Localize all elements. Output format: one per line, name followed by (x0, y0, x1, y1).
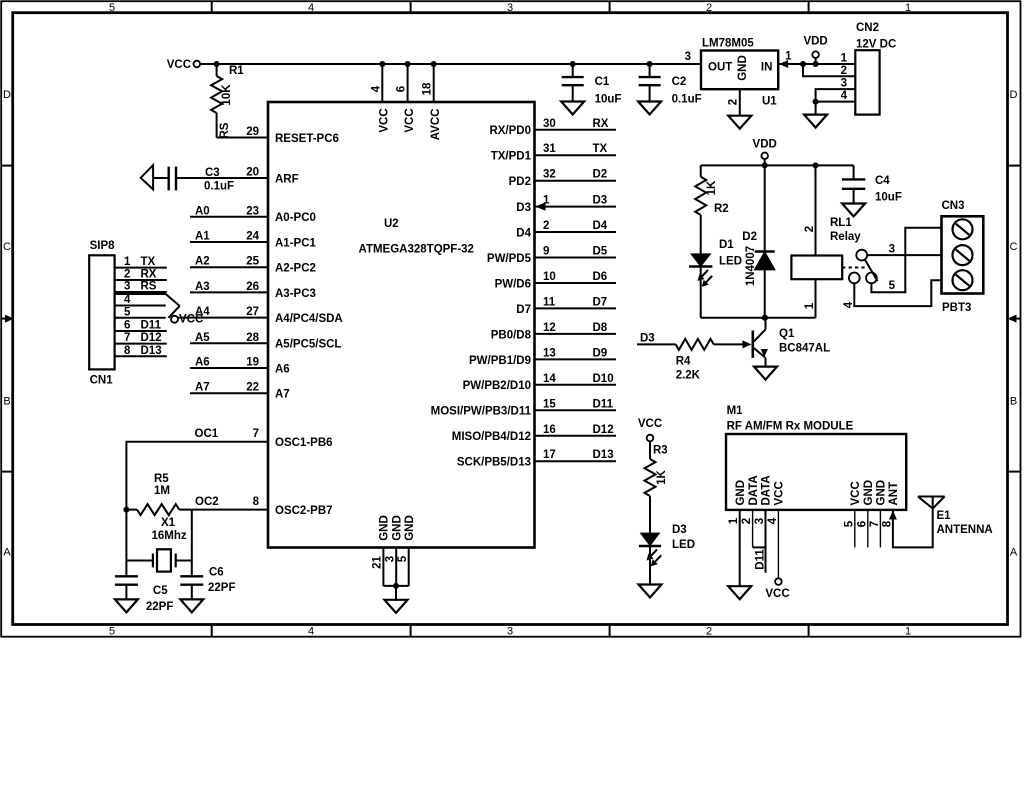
svg-text:D9: D9 (593, 347, 608, 359)
svg-text:10: 10 (543, 271, 556, 283)
ground symbol below U1 (728, 116, 751, 129)
svg-text:CN1: CN1 (90, 375, 114, 387)
ground symbol below C4 (842, 204, 865, 217)
svg-text:MISO/PB4/D12: MISO/PB4/D12 (452, 431, 531, 443)
svg-text:3: 3 (384, 556, 396, 562)
svg-text:5: 5 (889, 280, 896, 292)
regulator U1 GND pin 2 wire (728, 89, 740, 116)
svg-text:VCC: VCC (179, 314, 203, 326)
bottom border zone tick marks (211, 625, 213, 637)
svg-text:24: 24 (246, 231, 259, 243)
svg-text:A0-PC0: A0-PC0 (275, 212, 316, 224)
ground symbol below C6 (180, 599, 203, 612)
svg-text:6: 6 (396, 86, 408, 92)
power terminal VDD (relay section) (753, 139, 777, 166)
svg-text:TX: TX (141, 256, 156, 268)
svg-text:1: 1 (905, 626, 911, 638)
svg-text:15: 15 (543, 398, 556, 410)
wire M1 pin 7 stub (879, 510, 881, 548)
resistor R3 1K (645, 441, 669, 533)
svg-text:MOSI/PW/PB3/D11: MOSI/PW/PB3/D11 (431, 406, 532, 418)
svg-text:31: 31 (543, 143, 556, 155)
svg-text:VCC: VCC (638, 418, 662, 430)
svg-text:1: 1 (905, 2, 911, 14)
svg-text:29: 29 (246, 126, 259, 138)
junction dot relay branch (813, 162, 819, 168)
svg-text:C4: C4 (875, 175, 890, 187)
capacitor C6 22PF (180, 567, 235, 600)
ground symbol below CN2 (804, 115, 827, 128)
svg-text:RS: RS (141, 281, 157, 293)
svg-text:12: 12 (543, 322, 556, 334)
resistor R4 2.2K (676, 339, 744, 382)
capacitor C4 10uF (842, 165, 902, 203)
connector CN2 12V DC body (855, 50, 879, 114)
svg-text:D11: D11 (755, 549, 767, 570)
svg-text:RL1: RL1 (830, 217, 852, 229)
wire CN1 pin 8 net D13 (115, 355, 167, 357)
svg-text:OSC2-PB7: OSC2-PB7 (275, 505, 333, 517)
wire net D3 to R4 (637, 343, 676, 345)
svg-text:R2: R2 (714, 203, 729, 215)
svg-text:7: 7 (869, 521, 881, 527)
wire reset to U2 pin 29 (217, 137, 268, 139)
svg-text:D: D (3, 89, 11, 101)
svg-text:Q1: Q1 (779, 328, 795, 340)
svg-text:RX/PD0: RX/PD0 (489, 125, 531, 137)
connector CN2 labels (856, 22, 896, 51)
svg-text:1K: 1K (656, 469, 668, 484)
transistor Q1 BC847AL (753, 318, 830, 367)
wire CN2 pin 2 branch (803, 64, 855, 76)
svg-text:D11: D11 (593, 398, 614, 410)
svg-text:5: 5 (844, 520, 856, 527)
svg-text:A5/PC5/SCL: A5/PC5/SCL (275, 339, 341, 351)
svg-text:4: 4 (843, 301, 855, 308)
junction dot at R1 top (214, 61, 220, 67)
svg-text:A1-PC1: A1-PC1 (275, 237, 317, 249)
wire net A7 to U2 pin 22 (190, 392, 268, 394)
junction dot CN2 pin2 branch (800, 61, 806, 67)
wire M1 pin 6 stub (867, 510, 869, 548)
left border zone tick marks (1, 165, 13, 167)
power terminal VCC at CN1 arrow (171, 314, 203, 326)
svg-text:SIP8: SIP8 (90, 240, 116, 252)
svg-text:OC2: OC2 (195, 496, 219, 508)
svg-text:2: 2 (706, 2, 712, 14)
capacitor C3 0.1uF on ARF pin 20 (141, 165, 268, 192)
led D3 labels (672, 524, 695, 551)
svg-text:R3: R3 (653, 445, 668, 457)
power terminal VCC (M1 pin 4) (765, 578, 789, 600)
left edge centering arrow (1, 318, 8, 320)
svg-text:5: 5 (109, 2, 115, 14)
svg-text:U1: U1 (762, 96, 777, 108)
wire U2 pin 1 net D3 (535, 206, 617, 208)
wire CN1 pin 6 net D11 (115, 330, 167, 332)
svg-text:A1: A1 (195, 231, 210, 243)
wire U2 pin 31 net TX (535, 154, 617, 156)
svg-text:21: 21 (372, 556, 384, 569)
svg-text:OUT: OUT (708, 62, 732, 74)
right edge centering arrow (1014, 318, 1021, 320)
connector CN3 screw terminals (953, 219, 973, 290)
svg-text:3: 3 (124, 281, 130, 293)
svg-text:3: 3 (507, 2, 513, 14)
wire U2 top pin 4 to VCC rail (379, 61, 385, 102)
pin numbers M1 5-8 (844, 520, 894, 527)
svg-text:D2: D2 (593, 169, 608, 181)
svg-text:RS: RS (219, 122, 231, 138)
svg-text:C5: C5 (153, 585, 168, 597)
ic U2 ATMEGA328TQPF-32 body (268, 102, 535, 548)
svg-text:LED: LED (672, 539, 695, 551)
wire net A3 to U2 pin 26 (190, 291, 268, 293)
svg-text:5: 5 (109, 626, 115, 638)
svg-text:2: 2 (741, 518, 753, 524)
wire U2 pin 17 net D13 (535, 460, 617, 462)
wire U2 pin 9 net D5 (535, 257, 617, 259)
input arrowhead on U2 pin 1 D3 (536, 202, 546, 210)
resistor R2 1K (695, 165, 729, 254)
svg-text:GND: GND (863, 480, 875, 506)
svg-text:DATA: DATA (748, 475, 760, 505)
svg-text:2: 2 (706, 626, 712, 638)
wire U2 pin 16 net D12 (535, 435, 617, 437)
svg-text:VDD: VDD (753, 139, 777, 151)
svg-text:RF AM/FM Rx MODULE: RF AM/FM Rx MODULE (727, 421, 854, 433)
svg-text:27: 27 (246, 306, 259, 318)
svg-text:TX: TX (593, 143, 608, 155)
svg-text:18: 18 (422, 82, 434, 95)
svg-text:CN3: CN3 (942, 200, 965, 212)
svg-text:Relay: Relay (830, 231, 861, 243)
svg-text:ARF: ARF (275, 173, 299, 185)
svg-text:1: 1 (841, 53, 848, 65)
svg-text:D3: D3 (640, 333, 655, 345)
wire M1 pin 4 to VCC terminal (777, 510, 779, 578)
wire U2 top pin 6 to VCC rail (405, 61, 411, 102)
pin numbers M1 1-4 (728, 517, 779, 524)
svg-text:E1: E1 (937, 510, 952, 522)
svg-text:4: 4 (767, 517, 779, 524)
wire U2 top pin 18 to VCC rail (431, 61, 437, 102)
module M1 body (726, 434, 906, 510)
wire net A4 to U2 pin 27 (178, 317, 269, 319)
svg-text:D3: D3 (516, 202, 531, 214)
svg-text:ANT: ANT (888, 482, 900, 506)
wire VCC rail to regulator OUT (200, 63, 701, 65)
svg-text:25: 25 (246, 256, 259, 268)
svg-text:D12: D12 (593, 424, 614, 436)
svg-text:VCC: VCC (850, 481, 862, 505)
wire U2 pin 7 OC1 (126, 442, 268, 510)
wire M1 pin 1 to ground (739, 510, 741, 586)
svg-text:A7: A7 (275, 389, 290, 401)
ground symbol below C5 (115, 599, 138, 612)
ic U2 left pin names (275, 133, 343, 517)
svg-text:32: 32 (543, 169, 556, 181)
svg-text:A: A (1010, 547, 1018, 559)
sheet inner border frame (13, 13, 1008, 625)
svg-text:16: 16 (543, 424, 556, 436)
svg-text:16Mhz: 16Mhz (152, 530, 187, 542)
wire M1 pins 2 3 net D11 (753, 510, 766, 573)
ground symbol below C1 (561, 102, 584, 115)
wire CN1 pin 1 net TX (115, 267, 167, 269)
wire U1 IN to CN2 pin 1 (778, 63, 855, 65)
wire net A6 to U2 pin 19 (190, 367, 268, 369)
wire U2 pin 15 net D11 (535, 409, 617, 411)
wire net A1 to U2 pin 24 (190, 241, 268, 243)
svg-text:14: 14 (543, 373, 556, 385)
svg-text:D: D (1010, 89, 1018, 101)
svg-text:19: 19 (246, 357, 259, 369)
svg-text:A2: A2 (195, 256, 210, 268)
svg-text:A: A (3, 547, 11, 559)
svg-text:0.1uF: 0.1uF (672, 94, 702, 106)
svg-text:2: 2 (124, 269, 130, 281)
junction dot GND pins (393, 583, 399, 589)
wire U2 pin 2 net D4 (535, 231, 617, 233)
input arrowhead on U1 IN pin (779, 60, 788, 68)
svg-text:B: B (3, 396, 10, 408)
svg-text:GND: GND (392, 515, 404, 541)
svg-text:R4: R4 (676, 356, 691, 368)
svg-text:D4: D4 (593, 220, 608, 232)
svg-text:10uF: 10uF (595, 94, 622, 106)
relay RL1 switch contacts (849, 250, 878, 284)
svg-text:PBT3: PBT3 (942, 302, 971, 314)
svg-text:1M: 1M (154, 485, 170, 497)
junction dot bottom rail (762, 315, 768, 321)
capacitor C5 22PF (115, 576, 173, 613)
svg-text:1: 1 (804, 302, 816, 309)
svg-text:1: 1 (124, 256, 131, 268)
bus arrow CN1 pins 4 5 to VCC (115, 294, 180, 318)
svg-text:D8: D8 (593, 322, 608, 334)
svg-text:D5: D5 (593, 246, 608, 258)
wire U2 pin 32 net D2 (535, 180, 617, 182)
capacitor C2 0.1uF (639, 61, 702, 106)
svg-text:AVCC: AVCC (430, 109, 442, 141)
pin numbers CN2 1 2 3 4 (841, 53, 848, 103)
svg-text:ANTENNA: ANTENNA (937, 524, 993, 536)
wire relay NO to CN3 top (net 5) (871, 228, 941, 292)
svg-text:VCC: VCC (765, 588, 789, 600)
svg-text:4: 4 (124, 294, 131, 306)
svg-text:R5: R5 (154, 473, 169, 485)
svg-text:10K: 10K (221, 84, 233, 106)
svg-text:C: C (1010, 241, 1018, 253)
top border zone tick marks (211, 1, 213, 13)
wire CN2 pins 3 4 to ground (816, 89, 856, 115)
svg-text:1: 1 (728, 517, 740, 524)
svg-text:20: 20 (246, 167, 259, 179)
ground symbol below D3 (639, 585, 662, 598)
svg-text:3: 3 (754, 518, 766, 524)
wire M1 pin 5 stub (854, 510, 856, 548)
svg-text:C: C (3, 241, 11, 253)
svg-text:6: 6 (857, 521, 869, 527)
led D1 labels (719, 239, 742, 267)
svg-text:4: 4 (308, 2, 314, 14)
svg-text:TX/PD1: TX/PD1 (491, 151, 532, 163)
ground symbol below C2 (638, 102, 661, 115)
svg-text:GND: GND (735, 480, 747, 506)
module M1 labels (727, 405, 854, 433)
junction dot OC1/R5 (123, 507, 129, 513)
svg-text:12V DC: 12V DC (856, 39, 896, 51)
connector CN3 labels (942, 200, 972, 314)
svg-text:D7: D7 (516, 304, 531, 316)
wire CN1 pin 3 net RS (115, 291, 167, 293)
regulator U1 labels (702, 38, 777, 108)
svg-text:2: 2 (728, 99, 740, 105)
svg-text:PW/D6: PW/D6 (495, 278, 531, 290)
regulator U1 LM78M05 body (701, 51, 778, 90)
svg-text:2: 2 (841, 65, 847, 77)
resistor R5 1M (126, 473, 191, 515)
svg-text:VCC: VCC (404, 108, 416, 132)
wire U2 pin 11 net D7 (535, 307, 617, 309)
ic U2 bottom pin names GND GND GND (379, 515, 417, 541)
svg-text:D3: D3 (672, 524, 687, 536)
svg-text:4: 4 (841, 90, 848, 102)
svg-text:D12: D12 (141, 332, 162, 344)
wire net A2 to U2 pin 25 (190, 266, 268, 268)
svg-text:OSC1-PB6: OSC1-PB6 (275, 437, 333, 449)
diode D2 1N4007 (742, 165, 774, 317)
svg-text:8: 8 (124, 345, 131, 357)
wire U2 pin 10 net D6 (535, 282, 617, 284)
svg-text:2.2K: 2.2K (676, 370, 701, 382)
svg-text:3: 3 (889, 244, 895, 256)
connector CN1 SIP8 body (89, 255, 114, 369)
right border zone tick marks (1008, 165, 1021, 167)
wire U2 pin 30 net RX (535, 129, 617, 131)
wire VDD rail relay section (701, 164, 854, 166)
wire net A5 to U2 pin 28 (190, 342, 268, 344)
ground symbol below M1 pin 1 (728, 586, 751, 599)
svg-text:1N4007: 1N4007 (745, 246, 757, 286)
svg-text:A7: A7 (195, 382, 210, 394)
svg-text:GND: GND (737, 55, 749, 81)
svg-text:CN2: CN2 (856, 22, 879, 34)
svg-text:28: 28 (246, 332, 259, 344)
svg-text:PW/PD5: PW/PD5 (487, 253, 532, 265)
relay RL1 coil (791, 165, 861, 317)
wire relay common to CN3 pin 3 (867, 254, 941, 256)
led D1 emission arrows (699, 270, 708, 280)
svg-text:2: 2 (804, 226, 816, 232)
svg-text:RX: RX (593, 118, 609, 130)
svg-text:7: 7 (253, 428, 259, 440)
led D1 (689, 254, 712, 317)
svg-text:D6: D6 (593, 271, 608, 283)
svg-text:BC847AL: BC847AL (779, 343, 830, 355)
svg-text:B: B (1010, 396, 1017, 408)
svg-text:A0: A0 (195, 205, 210, 217)
svg-text:23: 23 (246, 205, 259, 217)
antenna E1 (918, 497, 993, 537)
arrowhead into Q1 base (743, 340, 752, 348)
svg-text:C1: C1 (595, 76, 610, 88)
led D3 (639, 534, 661, 585)
svg-text:M1: M1 (727, 405, 744, 417)
svg-text:OC1: OC1 (195, 428, 219, 440)
svg-text:3: 3 (507, 626, 513, 638)
capacitor C1 10uF (562, 61, 622, 106)
svg-text:VCC: VCC (379, 108, 391, 132)
connector CN1 labels (90, 240, 116, 387)
svg-text:X1: X1 (161, 517, 176, 529)
svg-text:22PF: 22PF (208, 582, 236, 594)
svg-text:C2: C2 (672, 76, 687, 88)
led D3 emission arrows (648, 550, 657, 560)
svg-text:PW/PB2/D10: PW/PB2/D10 (463, 380, 531, 392)
wires U2 bottom GND pins 21 3 5 (383, 548, 408, 600)
svg-text:5: 5 (124, 306, 131, 318)
svg-text:D7: D7 (593, 296, 608, 308)
svg-text:A6: A6 (195, 357, 210, 369)
svg-text:RESET-PC6: RESET-PC6 (275, 133, 339, 145)
svg-text:GND: GND (379, 515, 391, 541)
svg-text:5: 5 (397, 555, 409, 562)
svg-text:2: 2 (543, 220, 549, 232)
pin numbers 21 3 5 (372, 555, 409, 569)
power terminal VDD (top) (803, 36, 827, 65)
svg-text:1K: 1K (706, 180, 718, 195)
power terminal VCC (R3) (638, 418, 662, 441)
svg-text:D4: D4 (516, 227, 531, 239)
svg-text:6: 6 (124, 320, 130, 332)
svg-text:SCK/PB5/D13: SCK/PB5/D13 (457, 457, 531, 469)
svg-text:VDD: VDD (803, 36, 827, 48)
svg-text:VCC: VCC (167, 59, 191, 71)
junction dot CN2 pin4 (813, 99, 819, 105)
crystal X1 16Mhz (126, 510, 191, 577)
wire OC2 to U2 pin 8 (192, 509, 268, 511)
resistor R1 10K (211, 64, 244, 138)
svg-text:30: 30 (543, 118, 556, 130)
wire bottom rail D1 D2 relay Q1 (701, 317, 816, 319)
svg-text:D13: D13 (141, 345, 162, 357)
svg-text:LM78M05: LM78M05 (702, 38, 754, 50)
svg-text:22PF: 22PF (146, 601, 174, 613)
svg-text:D1: D1 (719, 239, 734, 251)
svg-text:ATMEGA328TQPF-32: ATMEGA328TQPF-32 (359, 244, 474, 256)
wire M1 pin 8 to antenna (889, 509, 933, 548)
svg-text:PD2: PD2 (509, 176, 531, 188)
svg-text:U2: U2 (384, 218, 399, 230)
svg-text:1: 1 (785, 51, 792, 63)
connector CN3 PBT3 body (942, 216, 984, 293)
power terminal VCC (top left) (167, 59, 200, 71)
svg-text:7: 7 (124, 332, 130, 344)
wire U2 pin 12 net D8 (535, 333, 617, 335)
ground symbol below Q1 (754, 367, 777, 380)
svg-text:D11: D11 (141, 320, 162, 332)
svg-text:17: 17 (543, 449, 556, 461)
svg-text:VCC: VCC (774, 481, 786, 505)
svg-text:D10: D10 (593, 373, 614, 385)
svg-text:13: 13 (543, 347, 556, 359)
svg-text:D13: D13 (593, 449, 614, 461)
svg-text:8: 8 (253, 496, 260, 508)
svg-text:RX: RX (141, 269, 157, 281)
svg-text:10uF: 10uF (875, 192, 902, 204)
